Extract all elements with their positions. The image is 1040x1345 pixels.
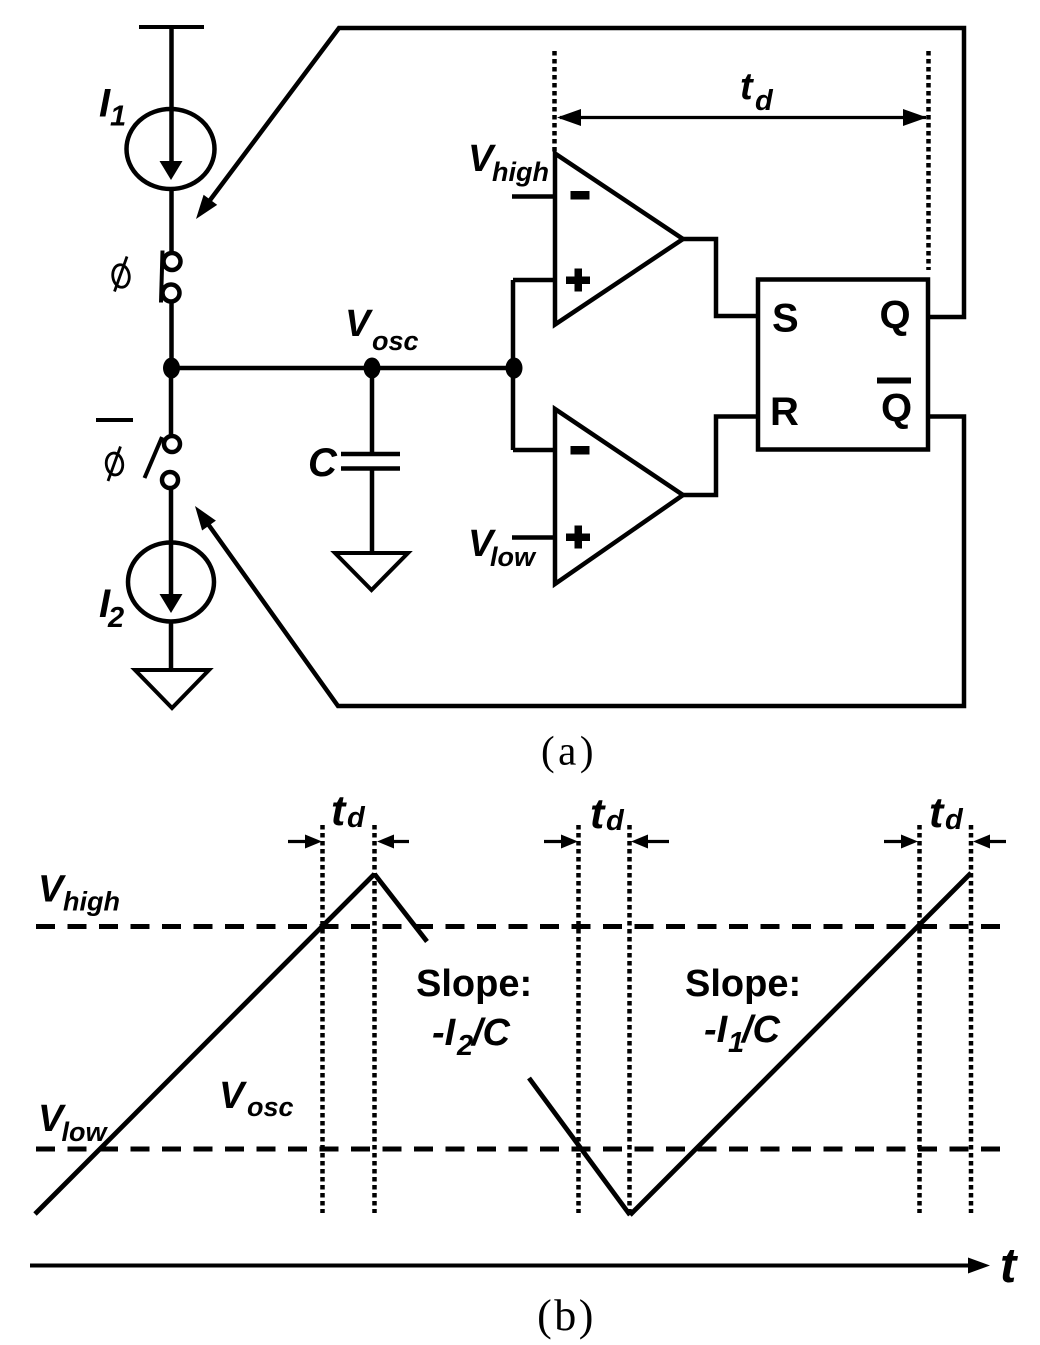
svg-text:/C: /C	[740, 1009, 781, 1051]
wire I2 to ground	[169, 621, 174, 670]
svg-text:(a): (a)	[541, 728, 597, 774]
dotted line pair1 b	[372, 825, 377, 1213]
svg-text:R: R	[770, 390, 799, 434]
label Vosc	[345, 303, 419, 356]
td label 2	[590, 790, 625, 838]
wire Qbar feedback to switch phibar	[195, 417, 964, 707]
wire comparator input feed vertical	[511, 280, 516, 450]
U1 plus	[566, 269, 590, 292]
svg-text:V: V	[38, 869, 66, 911]
label td top	[740, 66, 774, 117]
wire switch phibar to I2 arrow shaft	[169, 488, 174, 594]
waveform Vlow dashed level	[36, 1147, 1001, 1152]
switch phibar (open)	[145, 436, 181, 488]
label I2	[99, 582, 124, 634]
svg-text:d: d	[945, 804, 964, 836]
comparator U1	[555, 154, 683, 325]
svg-text:2: 2	[456, 1030, 473, 1062]
td arrow pair3 left	[884, 835, 918, 849]
dotted line pair2 a	[576, 825, 581, 1213]
svg-text:low: low	[62, 1117, 109, 1147]
wire U1 output to S	[683, 239, 758, 316]
wire to U1 plus input	[513, 278, 556, 283]
wire Q feedback to switch phi	[196, 28, 964, 317]
td label 3	[929, 789, 964, 837]
svg-text:V: V	[345, 303, 373, 345]
svg-text:t: t	[1000, 1239, 1018, 1293]
svg-text:d: d	[755, 85, 774, 117]
dotted line pair2 b	[627, 825, 632, 1213]
current source I2	[128, 543, 214, 622]
svg-text:osc: osc	[247, 1092, 294, 1122]
svg-text:Q: Q	[881, 386, 912, 430]
dotted line pair3 a	[917, 825, 922, 1213]
label Slope -I1/C	[685, 963, 801, 1059]
wire node to switch phibar	[169, 368, 174, 436]
svg-text:Q: Q	[880, 293, 911, 337]
U2 plus	[566, 526, 590, 549]
node junction dot left	[163, 358, 180, 379]
wire Vlow stub	[512, 535, 556, 540]
label Vhigh	[468, 138, 549, 187]
ground (capacitor)	[335, 553, 408, 590]
svg-text:C: C	[308, 441, 338, 485]
comparator U2	[555, 409, 683, 584]
wire to U2 minus input	[513, 448, 556, 453]
label Vlow	[468, 523, 537, 572]
SR latch U3	[758, 280, 928, 450]
node C junction dot	[364, 358, 381, 379]
svg-text:osc: osc	[372, 326, 419, 356]
dotted line right td	[926, 51, 931, 270]
ground (I2)	[135, 670, 209, 708]
svg-text:high: high	[492, 157, 549, 187]
label Vlow waveform	[38, 1098, 108, 1147]
U1 minus	[571, 191, 590, 200]
label I1	[99, 82, 126, 133]
svg-text:Slope:: Slope:	[416, 963, 532, 1005]
svg-text:t: t	[740, 66, 754, 108]
svg-text:t: t	[929, 789, 945, 837]
dotted line left td	[552, 51, 557, 152]
svg-text:high: high	[63, 887, 120, 917]
time axis	[30, 1258, 990, 1274]
wire VDD to I1 arrow shaft	[169, 27, 174, 162]
svg-text:/C: /C	[470, 1012, 511, 1054]
waveform rising segment 1	[35, 874, 375, 1214]
waveform rising segment 2	[630, 873, 971, 1215]
td arrow pair3 right	[973, 835, 1006, 849]
td arrow pair1 left	[288, 835, 322, 849]
svg-text:-I: -I	[704, 1009, 729, 1051]
waveform falling segment 1	[375, 874, 428, 942]
svg-text:low: low	[490, 542, 537, 572]
label phibar	[96, 420, 133, 481]
node comparator junction dot	[506, 358, 523, 379]
svg-text:(b): (b)	[537, 1291, 596, 1340]
td arrow pair2 right	[631, 835, 669, 849]
U2 minus	[571, 446, 590, 455]
svg-text:d: d	[606, 805, 625, 837]
svg-text:Slope:: Slope:	[685, 963, 801, 1005]
supply rail VDD	[139, 25, 204, 29]
wire U2 output to R	[683, 417, 758, 496]
current source I1	[127, 109, 215, 189]
switch phi (closed)	[161, 251, 181, 303]
label Slope -I2/C	[416, 963, 532, 1062]
wire Vhigh stub	[512, 194, 556, 199]
td arrow pair2 left	[544, 835, 578, 849]
label Qbar	[877, 381, 912, 431]
td arrow double-headed	[557, 109, 927, 126]
waveform Vhigh dashed level	[36, 924, 1001, 929]
wire node to capacitor	[370, 368, 375, 452]
svg-text:-I: -I	[432, 1012, 457, 1054]
svg-text:d: d	[347, 802, 366, 834]
svg-text:t: t	[331, 787, 347, 835]
label Vhigh waveform	[38, 869, 120, 917]
dotted line pair1 a	[320, 825, 325, 1213]
label Vosc waveform	[219, 1075, 294, 1122]
svg-text:V: V	[219, 1075, 247, 1117]
td arrow pair1 right	[377, 835, 409, 849]
dotted line pair3 b	[969, 825, 974, 1213]
wire I1 to switch phi	[169, 189, 174, 254]
label phi	[111, 257, 130, 292]
wire capacitor to ground	[370, 470, 375, 553]
svg-text:2: 2	[107, 602, 124, 634]
svg-text:1: 1	[110, 101, 126, 133]
wire node to comparators	[172, 366, 515, 371]
wire switch to node	[169, 301, 174, 372]
svg-text:S: S	[772, 297, 799, 341]
svg-text:t: t	[590, 790, 606, 838]
td label 1	[331, 787, 366, 835]
waveform falling segment 2	[529, 1078, 630, 1215]
capacitor C	[341, 454, 400, 469]
